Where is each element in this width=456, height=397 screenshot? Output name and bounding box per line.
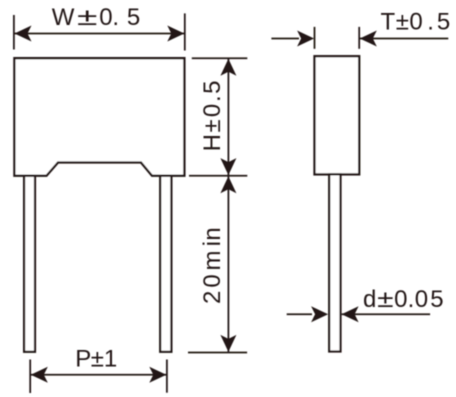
svg-text:W: W [52, 4, 75, 31]
svg-text:H±0.5: H±0.5 [199, 81, 226, 152]
svg-text:d: d [363, 286, 376, 313]
svg-text:P±1: P±1 [75, 345, 117, 372]
svg-text:T±0.5: T±0.5 [381, 9, 451, 36]
svg-text:±: ± [377, 285, 394, 312]
svg-text:0.05: 0.05 [394, 286, 443, 313]
svg-text:±: ± [77, 4, 97, 31]
svg-text:20min: 20min [199, 227, 226, 304]
